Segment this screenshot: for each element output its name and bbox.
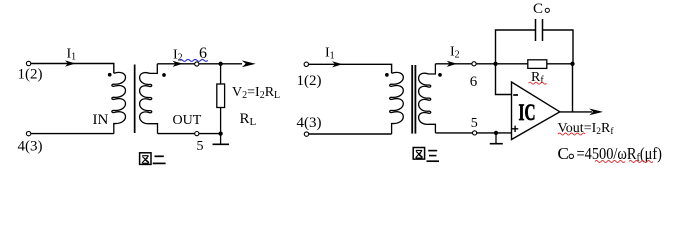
junction top fig2 (218, 62, 222, 66)
polarity dot secondary fig3 (438, 73, 442, 77)
current arrow I2 fig3 (447, 61, 458, 67)
junction plus node fig3 (494, 131, 498, 135)
wire resistor bottom (220, 108, 222, 134)
output wire arrow (560, 111, 592, 113)
node 4(3) terminal circle fig3 (304, 132, 308, 136)
svg-text:4(3): 4(3) (297, 115, 322, 131)
node 5 terminal circle fig2 (195, 132, 199, 136)
svg-text:C: C (533, 1, 543, 17)
polarity dot secondary fig2 (162, 73, 166, 77)
wire top primary (31, 64, 114, 74)
svg-text:5: 5 (197, 139, 204, 154)
caption 图三 (413, 148, 439, 162)
polarity dot primary fig3 (385, 73, 389, 77)
junction output node fig3 (570, 62, 574, 66)
current arrow I1 (65, 60, 76, 66)
wire resistor top (220, 64, 222, 84)
current arrow I2 fig2 (173, 61, 184, 67)
transformer core fig2 (134, 65, 136, 134)
wire bottom primary fig3 (309, 133, 392, 135)
output arrow fig2 (242, 60, 256, 67)
svg-text:4(3): 4(3) (18, 139, 43, 155)
wire Rf to output node (547, 63, 573, 65)
wire bottom secondary fig2 (158, 133, 221, 135)
wire bottom primary (31, 133, 114, 135)
red squiggle under wRf (595, 161, 625, 163)
current arrow I1 fig3 (332, 61, 343, 67)
minus input wire (496, 64, 512, 95)
secondary winding OUT (coil) (140, 64, 158, 134)
svg-text:V2=I2RL: V2=I2RL (232, 85, 280, 101)
svg-text:C: C (558, 144, 569, 163)
blue squiggle under I2 6 (179, 59, 208, 61)
svg-text:IC: IC (519, 100, 536, 125)
svg-text:IN: IN (93, 112, 109, 128)
svg-text:OUT: OUT (173, 113, 202, 128)
polarity dot primary fig2 (108, 73, 112, 77)
resistor Rf (528, 60, 547, 69)
wire top secondary fig3 (435, 63, 495, 65)
ground fig2 (220, 134, 222, 144)
node 6 terminal circle fig3 (472, 62, 476, 66)
plus input wire (435, 132, 511, 134)
svg-text:1(2): 1(2) (18, 67, 43, 83)
capacitor C0 feedback loop left wire (496, 30, 536, 64)
node 6 terminal circle fig2 (195, 62, 199, 66)
node 4(3) terminal circle (26, 131, 30, 135)
op-amp plus sign (512, 126, 518, 132)
secondary winding fig3 (coil) (419, 64, 436, 133)
junction minus node fig3 (493, 62, 497, 66)
svg-text:6: 6 (199, 45, 207, 62)
op-amp U1 triangle (512, 82, 560, 140)
wire top primary fig3 (309, 64, 392, 73)
svg-text:Vout=I2Rf: Vout=I2Rf (558, 121, 615, 137)
node 1(2) terminal circle (26, 61, 30, 65)
svg-text:5: 5 (471, 116, 478, 131)
wire top secondary fig2 (157, 63, 242, 65)
wire to Rf (496, 63, 528, 65)
svg-text:1(2): 1(2) (297, 73, 322, 89)
caption 图二 (140, 153, 166, 165)
junction bottom fig2 (218, 131, 222, 135)
node 5 terminal circle fig3 (473, 131, 477, 135)
red squiggle under Vout (558, 133, 585, 135)
node 1(2) terminal circle fig3 (304, 62, 308, 66)
op-amp minus sign (513, 94, 518, 96)
capacitor C0 plates (536, 19, 543, 41)
red squiggle under Rf (529, 82, 547, 84)
transformer core fig3 (two lines) (411, 65, 413, 134)
ground fig3 (495, 133, 497, 144)
svg-text:6: 6 (470, 74, 478, 90)
red squiggle under uf (629, 161, 653, 163)
primary winding IN (coil) (112, 72, 126, 133)
feedback vertical to output (572, 64, 574, 112)
capacitor C0 right wire (543, 30, 574, 64)
primary winding fig3 (coil) (390, 72, 404, 134)
resistor RL (217, 84, 225, 108)
